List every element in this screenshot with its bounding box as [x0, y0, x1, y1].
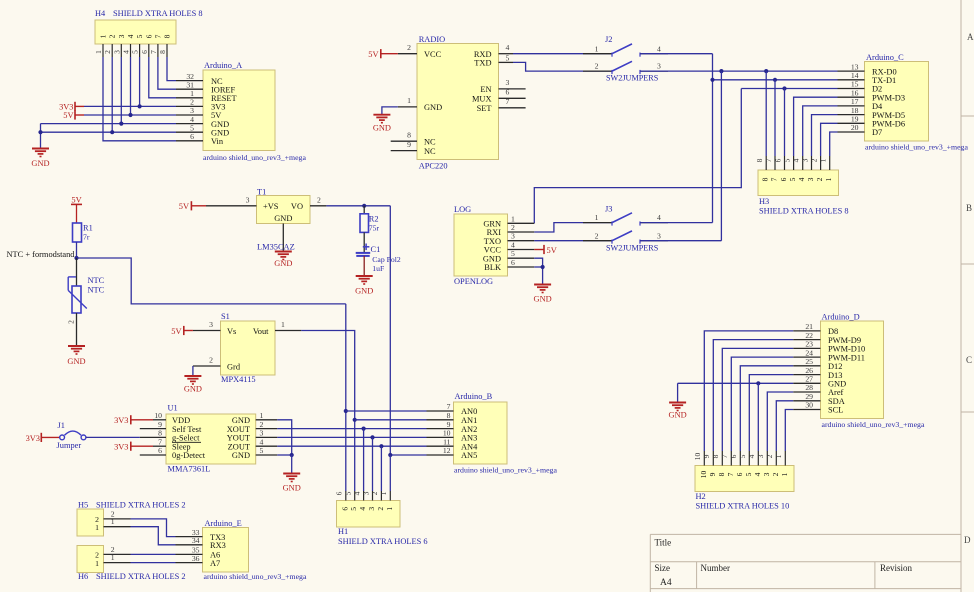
svg-text:5: 5 — [349, 507, 358, 511]
svg-text:H3: H3 — [759, 197, 769, 206]
H1 pin 4 — [363, 491, 365, 501]
svg-text:Self Test: Self Test — [172, 425, 202, 434]
svg-text:PWM-D11: PWM-D11 — [828, 353, 865, 362]
wire J3.4 right — [640, 222, 713, 224]
svg-text:5V: 5V — [368, 50, 378, 59]
svg-text:J1: J1 — [58, 421, 65, 430]
wire Arduino_D D12 to H2.6 — [740, 366, 793, 451]
svg-text:BLK: BLK — [484, 263, 501, 272]
svg-text:PWM-D9: PWM-D9 — [828, 336, 861, 345]
svg-text:SET: SET — [477, 104, 492, 113]
wire RADIO RXD to J2 — [513, 53, 612, 55]
wire YOUT to AN3 — [277, 436, 426, 438]
RADIO pin 1 GND — [398, 106, 417, 108]
wire SCL to H2.1 — [785, 410, 793, 452]
H4 pin 8 — [166, 44, 168, 57]
svg-text:2: 2 — [815, 177, 824, 181]
RADIO pin 2 VCC — [398, 53, 417, 55]
svg-text:8: 8 — [158, 429, 162, 438]
wire GND row 2 — [41, 131, 177, 133]
svg-text:2: 2 — [809, 158, 818, 162]
power port 5V (LOG VCC) — [534, 249, 544, 251]
svg-text:Size: Size — [655, 563, 671, 573]
svg-text:5: 5 — [260, 446, 264, 455]
svg-text:GND: GND — [483, 254, 501, 263]
ground (C1) — [356, 275, 373, 277]
svg-text:RXI: RXI — [487, 228, 502, 237]
wire Arduino_D PWM-D10 to H2.8 — [722, 348, 793, 451]
capacitor C1 (Cap Pol2 1uF) — [363, 246, 370, 248]
svg-text:GND: GND — [31, 159, 49, 168]
H3 pin 4 — [802, 156, 804, 170]
svg-text:2: 2 — [376, 507, 385, 511]
S1 pin 1 Vout — [275, 330, 301, 332]
svg-text:arduino shield_uno_rev3_+mega: arduino shield_uno_rev3_+mega — [203, 153, 306, 162]
svg-text:Revision: Revision — [880, 563, 913, 573]
svg-text:R1: R1 — [83, 224, 93, 233]
svg-text:2: 2 — [370, 491, 379, 495]
svg-text:5: 5 — [511, 249, 515, 258]
svg-text:4: 4 — [511, 241, 515, 250]
switch J3 contact 1-4 — [583, 222, 612, 224]
Arduino_A pin 32 NC — [176, 80, 203, 82]
Arduino_C pin 18 PWM-D5 — [838, 114, 865, 116]
net D2 wire — [741, 88, 837, 90]
RADIO pin 6 MUX — [499, 97, 526, 99]
RADIO pin 3 EN — [499, 88, 526, 90]
sheet border zone tick y=116 — [961, 115, 974, 117]
ground (NTC) — [68, 345, 85, 347]
svg-text:9: 9 — [447, 420, 451, 429]
svg-text:1: 1 — [824, 177, 833, 181]
svg-text:TXD: TXD — [474, 59, 491, 68]
svg-text:7: 7 — [506, 97, 510, 106]
svg-text:4: 4 — [747, 454, 756, 458]
svg-text:Arduino_A: Arduino_A — [204, 61, 242, 70]
wire U1 GND pins to ground — [277, 420, 291, 455]
svg-text:LM35CAZ: LM35CAZ — [257, 242, 295, 251]
svg-text:GND: GND — [424, 103, 442, 112]
U1 pin 4 ZOUT — [256, 445, 278, 447]
wire S1 net down to H1.5 — [354, 420, 356, 491]
H2 pin 7 — [730, 451, 732, 466]
svg-text:7: 7 — [770, 177, 779, 181]
switch J2 contact 2-3 — [583, 70, 612, 72]
H6 pin 1 — [104, 562, 131, 564]
svg-text:7: 7 — [153, 34, 162, 38]
wire T1 VO to R2 / AN5 — [326, 205, 390, 207]
svg-text:8: 8 — [761, 177, 770, 181]
svg-text:Number: Number — [701, 563, 731, 573]
svg-text:1: 1 — [281, 320, 285, 329]
svg-text:3V3: 3V3 — [114, 443, 128, 452]
svg-text:0g-Detect: 0g-Detect — [172, 451, 206, 460]
svg-text:GND: GND — [669, 411, 687, 420]
svg-text:2: 2 — [317, 195, 321, 204]
svg-text:3: 3 — [800, 158, 809, 162]
Arduino_E pin 35 A6 — [176, 553, 203, 555]
svg-text:PWM-D10: PWM-D10 — [828, 345, 865, 354]
svg-text:4: 4 — [358, 507, 367, 511]
H2 pin 3 — [766, 451, 768, 466]
svg-text:8: 8 — [447, 411, 451, 420]
Arduino_D pin 21 D8 — [793, 330, 820, 332]
wire 5V to Arduino_A pin 5V — [84, 114, 176, 116]
svg-text:C1: C1 — [371, 245, 381, 254]
svg-text:5: 5 — [135, 34, 144, 38]
svg-text:2: 2 — [765, 454, 774, 458]
wire R1 to node — [76, 242, 78, 258]
svg-text:5: 5 — [344, 491, 353, 495]
svg-text:6: 6 — [735, 472, 744, 476]
svg-text:1: 1 — [511, 214, 515, 223]
wire H4.1 to Vin — [103, 57, 176, 141]
H2 pin 5 — [748, 451, 750, 466]
svg-text:Vin: Vin — [211, 137, 224, 146]
Arduino_D pin 23 PWM-D10 — [793, 347, 820, 349]
svg-text:3: 3 — [117, 34, 126, 38]
wire H4.2 to GND net — [111, 57, 113, 132]
svg-text:3V3: 3V3 — [26, 434, 40, 443]
Arduino_D pin 22 PWM-D9 — [793, 339, 820, 341]
wire NTC net down to AN0 and H1.6 — [345, 304, 347, 491]
svg-text:2: 2 — [103, 50, 112, 54]
svg-text:6: 6 — [506, 88, 510, 97]
svg-text:1: 1 — [94, 50, 103, 54]
svg-text:10: 10 — [693, 453, 702, 461]
svg-text:GND: GND — [184, 385, 202, 394]
svg-text:6: 6 — [158, 446, 162, 455]
svg-text:H2: H2 — [696, 492, 706, 501]
svg-text:PWM-D5: PWM-D5 — [872, 111, 905, 120]
svg-text:6: 6 — [511, 258, 515, 267]
svg-text:AN1: AN1 — [461, 416, 477, 425]
wire S1 Vout to AN1 — [301, 331, 354, 420]
svg-text:28: 28 — [805, 383, 813, 392]
connector H6 — [77, 546, 104, 573]
svg-text:1: 1 — [99, 34, 108, 38]
Arduino_E pin 36 A7 — [176, 562, 203, 564]
svg-text:Grd: Grd — [227, 362, 241, 371]
svg-text:D7: D7 — [872, 128, 882, 137]
Arduino_B pin 11 AN4 — [427, 445, 454, 447]
svg-text:30: 30 — [805, 401, 813, 410]
wire Arduino_D D13 to H2.5 — [749, 375, 793, 451]
svg-text:5V: 5V — [547, 246, 557, 255]
H1 pin 2 — [380, 491, 382, 501]
svg-text:5V: 5V — [179, 202, 189, 211]
connector H4 — [95, 20, 176, 44]
wire Arduino_D PWM-D11 to H2.7 — [731, 357, 793, 451]
svg-text:SHIELD XTRA HOLES 2: SHIELD XTRA HOLES 2 — [96, 500, 186, 509]
svg-text:4: 4 — [792, 158, 801, 162]
svg-text:18: 18 — [851, 106, 859, 115]
NTC pin 2 — [76, 313, 78, 346]
svg-text:3: 3 — [246, 195, 250, 204]
wire AN5 row — [390, 454, 426, 456]
svg-text:GND: GND — [232, 451, 250, 460]
net RX-D0 wire (J2.3 to Arduino_C) — [640, 70, 838, 72]
svg-text:16: 16 — [851, 88, 859, 97]
H2 pin 9 — [712, 451, 714, 466]
svg-text:H4: H4 — [95, 9, 106, 18]
ground (U1) — [283, 473, 300, 475]
svg-text:3: 3 — [260, 429, 264, 438]
H2 pin 8 — [721, 451, 723, 466]
svg-text:3: 3 — [657, 62, 661, 71]
svg-text:1: 1 — [379, 491, 388, 495]
svg-text:15: 15 — [851, 80, 859, 89]
U1 pin 5 GND — [256, 454, 278, 456]
LOG pin 2 RXI — [508, 231, 535, 233]
wire AN1 row — [355, 419, 427, 421]
connector H5 — [77, 509, 104, 536]
LOG pin 5 GND — [508, 257, 535, 259]
Arduino_E pin 34 RX3 — [176, 544, 203, 546]
U1 pin 2 XOUT — [256, 428, 278, 430]
U1 pin 3 YOUT — [256, 436, 278, 438]
svg-text:4: 4 — [122, 50, 131, 54]
svg-text:13: 13 — [851, 62, 859, 71]
H3 pin 3 — [811, 156, 813, 170]
wire H4.4 to 5V net — [130, 57, 132, 115]
U1 pin 10 VDD — [153, 419, 166, 421]
wire H4.3 to GND net — [120, 57, 122, 124]
svg-text:AN3: AN3 — [461, 434, 477, 443]
svg-text:3: 3 — [657, 231, 661, 240]
S1 pin 2 Grd — [193, 365, 221, 367]
H3 pin 6 — [784, 156, 786, 170]
U1 pin 9 Self Test — [140, 428, 166, 430]
svg-text:29: 29 — [805, 392, 813, 401]
svg-text:4: 4 — [352, 491, 361, 495]
H3 pin 7 — [774, 156, 776, 170]
svg-text:VDD: VDD — [172, 416, 190, 425]
svg-text:SW2JUMPERS: SW2JUMPERS — [606, 73, 659, 82]
svg-text:7: 7 — [764, 158, 773, 162]
svg-text:+VS: +VS — [263, 202, 279, 211]
ground (RADIO) — [373, 114, 390, 116]
svg-text:1: 1 — [95, 523, 99, 532]
svg-text:6: 6 — [779, 177, 788, 181]
wire VO to AN5 long vertical — [389, 206, 391, 455]
Arduino_C pin 20 D7 — [838, 131, 865, 133]
RADIO pin 4 RXD — [499, 53, 514, 55]
svg-text:6: 6 — [190, 132, 194, 141]
svg-text:Sleep: Sleep — [172, 442, 191, 451]
wire R2 to C1 — [363, 232, 365, 252]
H2 pin 1 — [784, 451, 786, 466]
svg-text:3: 3 — [506, 78, 510, 87]
wire LOG GRN route to D2 — [534, 89, 741, 224]
svg-text:2: 2 — [108, 34, 117, 38]
H2 pin 2 — [775, 451, 777, 466]
svg-text:Aref: Aref — [828, 388, 844, 397]
wire Arduino_C PWM-D5 to H3.3 — [812, 115, 838, 156]
wire LOG RXI to J3.1 — [534, 223, 612, 232]
H4 pin 6 — [148, 44, 150, 57]
svg-text:NC: NC — [424, 138, 436, 147]
connector H3 — [758, 170, 839, 196]
svg-text:5V: 5V — [71, 196, 81, 205]
svg-text:Arduino_B: Arduino_B — [455, 392, 493, 401]
wire D2 down to H3.6 — [784, 89, 786, 157]
svg-text:TX-D1: TX-D1 — [872, 76, 896, 85]
svg-text:3: 3 — [511, 232, 515, 241]
Arduino_A pin 31 IOREF — [176, 88, 203, 90]
svg-text:3: 3 — [806, 177, 815, 181]
svg-text:NTC: NTC — [88, 276, 105, 285]
svg-text:27: 27 — [805, 375, 813, 384]
svg-text:36: 36 — [192, 554, 200, 563]
svg-text:4: 4 — [657, 213, 661, 222]
svg-text:arduino shield_uno_rev3_+mega: arduino shield_uno_rev3_+mega — [454, 466, 557, 475]
thermistor NTC — [72, 286, 81, 313]
svg-text:GND: GND — [373, 124, 391, 133]
svg-text:5: 5 — [506, 54, 510, 63]
svg-text:6: 6 — [729, 454, 738, 458]
svg-text:2: 2 — [595, 62, 599, 71]
wire GND symbol stem — [677, 383, 679, 402]
svg-text:LOG: LOG — [454, 205, 471, 214]
RADIO pin 9 NC — [391, 150, 417, 152]
svg-text:5: 5 — [744, 472, 753, 476]
Arduino_C pin 14 TX-D1 — [838, 79, 865, 81]
svg-text:7: 7 — [720, 454, 729, 458]
svg-text:4: 4 — [506, 43, 510, 52]
U1 pin 1 GND — [256, 419, 278, 421]
Arduino_C pin 15 D2 — [838, 88, 865, 90]
svg-text:SHIELD XTRA HOLES 10: SHIELD XTRA HOLES 10 — [696, 502, 790, 511]
wire Arduino_C D4 to H3.4 — [803, 106, 838, 156]
svg-text:PWM-D6: PWM-D6 — [872, 120, 905, 129]
U1 pin 8 g-Select — [140, 436, 166, 438]
svg-text:g-Select: g-Select — [172, 434, 200, 443]
Arduino_D pin 25 D12 — [793, 365, 820, 367]
svg-text:MUX: MUX — [472, 95, 492, 104]
svg-text:MPX4115: MPX4115 — [221, 375, 256, 384]
svg-text:A: A — [967, 32, 974, 42]
svg-text:VCC: VCC — [484, 246, 502, 255]
svg-text:GND: GND — [274, 259, 292, 268]
H1 pin 1 — [389, 491, 391, 501]
svg-text:6: 6 — [140, 50, 149, 54]
svg-text:4: 4 — [126, 34, 135, 38]
Arduino_D pin 28 Aref — [793, 391, 820, 393]
wire H6.1 to A7 — [131, 562, 176, 564]
svg-text:6: 6 — [335, 491, 344, 495]
svg-text:10: 10 — [443, 429, 451, 438]
svg-text:D: D — [964, 535, 971, 545]
svg-text:12: 12 — [443, 446, 451, 455]
svg-text:8: 8 — [755, 158, 764, 162]
svg-text:3: 3 — [762, 472, 771, 476]
svg-text:A4: A4 — [660, 578, 672, 588]
svg-text:6: 6 — [144, 34, 153, 38]
svg-text:Arduino_C: Arduino_C — [866, 53, 904, 62]
H4 pin 3 — [120, 44, 122, 57]
svg-text:7r: 7r — [83, 233, 90, 242]
wire AN3 down to H1.3 — [372, 437, 374, 491]
svg-text:9: 9 — [702, 454, 711, 458]
wire node to AN0 route — [77, 258, 346, 304]
svg-text:1: 1 — [595, 44, 599, 53]
svg-text:10: 10 — [699, 471, 708, 479]
svg-text:APC220: APC220 — [419, 162, 448, 171]
svg-text:GND: GND — [283, 484, 301, 493]
RADIO pin 8 NC — [391, 140, 417, 142]
H1 pin 6 — [345, 491, 347, 501]
svg-text:22: 22 — [805, 331, 813, 340]
wire RADIO GND — [382, 107, 398, 115]
wire node down to NTC — [76, 258, 78, 286]
svg-text:Arduino_D: Arduino_D — [822, 312, 860, 321]
sheet border zone tick y=264 — [961, 263, 974, 265]
Arduino_A pin 6 Vin — [176, 140, 203, 142]
svg-text:3: 3 — [756, 454, 765, 458]
svg-text:1: 1 — [780, 472, 789, 476]
wire J2.4 right — [640, 53, 713, 55]
svg-text:arduino shield_uno_rev3_+mega: arduino shield_uno_rev3_+mega — [204, 572, 307, 581]
svg-text:T1: T1 — [257, 187, 266, 196]
svg-text:2: 2 — [209, 356, 213, 365]
svg-text:1uF: 1uF — [372, 264, 384, 273]
svg-text:NTC + formodstand: NTC + formodstand — [7, 250, 76, 259]
svg-text:2: 2 — [511, 223, 515, 232]
wire ZOUT to AN4 — [277, 445, 426, 447]
svg-text:2: 2 — [67, 320, 76, 324]
svg-text:4: 4 — [797, 177, 806, 181]
svg-text:AN5: AN5 — [461, 451, 477, 460]
svg-text:3: 3 — [367, 507, 376, 511]
wire H4.6 to RESET — [149, 57, 176, 98]
svg-text:ZOUT: ZOUT — [228, 442, 250, 451]
svg-text:4: 4 — [657, 44, 661, 53]
svg-text:9: 9 — [708, 472, 717, 476]
svg-text:4: 4 — [753, 472, 762, 476]
H2 pin 10 — [703, 451, 705, 466]
svg-text:6: 6 — [773, 158, 782, 162]
svg-text:S1: S1 — [221, 312, 230, 321]
svg-text:20: 20 — [851, 123, 859, 132]
svg-text:2: 2 — [771, 472, 780, 476]
svg-text:23: 23 — [805, 340, 813, 349]
svg-text:SCL: SCL — [828, 406, 843, 415]
svg-text:D12: D12 — [828, 362, 842, 371]
svg-text:H6: H6 — [78, 572, 88, 581]
ground (LOG) — [534, 284, 551, 286]
svg-text:GND: GND — [232, 416, 250, 425]
svg-text:NC: NC — [424, 147, 436, 156]
svg-text:J2: J2 — [605, 35, 612, 44]
Arduino_D pin 27 GND — [793, 382, 820, 384]
Arduino_C pin 19 PWM-D6 — [838, 122, 865, 124]
title block — [650, 533, 961, 535]
svg-text:5: 5 — [738, 454, 747, 458]
svg-text:5: 5 — [782, 158, 791, 162]
wire Arduino_C PWM-D3 to H3.5 — [794, 97, 838, 156]
svg-text:3V3: 3V3 — [114, 416, 128, 425]
U1 pin 7 Sleep — [153, 445, 166, 447]
svg-text:25: 25 — [805, 357, 813, 366]
wire VO node to R2 — [363, 206, 365, 214]
sheet right border line — [960, 0, 962, 592]
wire RX-D0 down to J3.3 — [720, 71, 722, 241]
H4 pin 2 — [111, 44, 113, 57]
T1 pin 2 VO — [310, 205, 326, 207]
svg-text:SHIELD XTRA HOLES 8: SHIELD XTRA HOLES 8 — [759, 207, 849, 216]
connector H2 — [695, 466, 794, 492]
